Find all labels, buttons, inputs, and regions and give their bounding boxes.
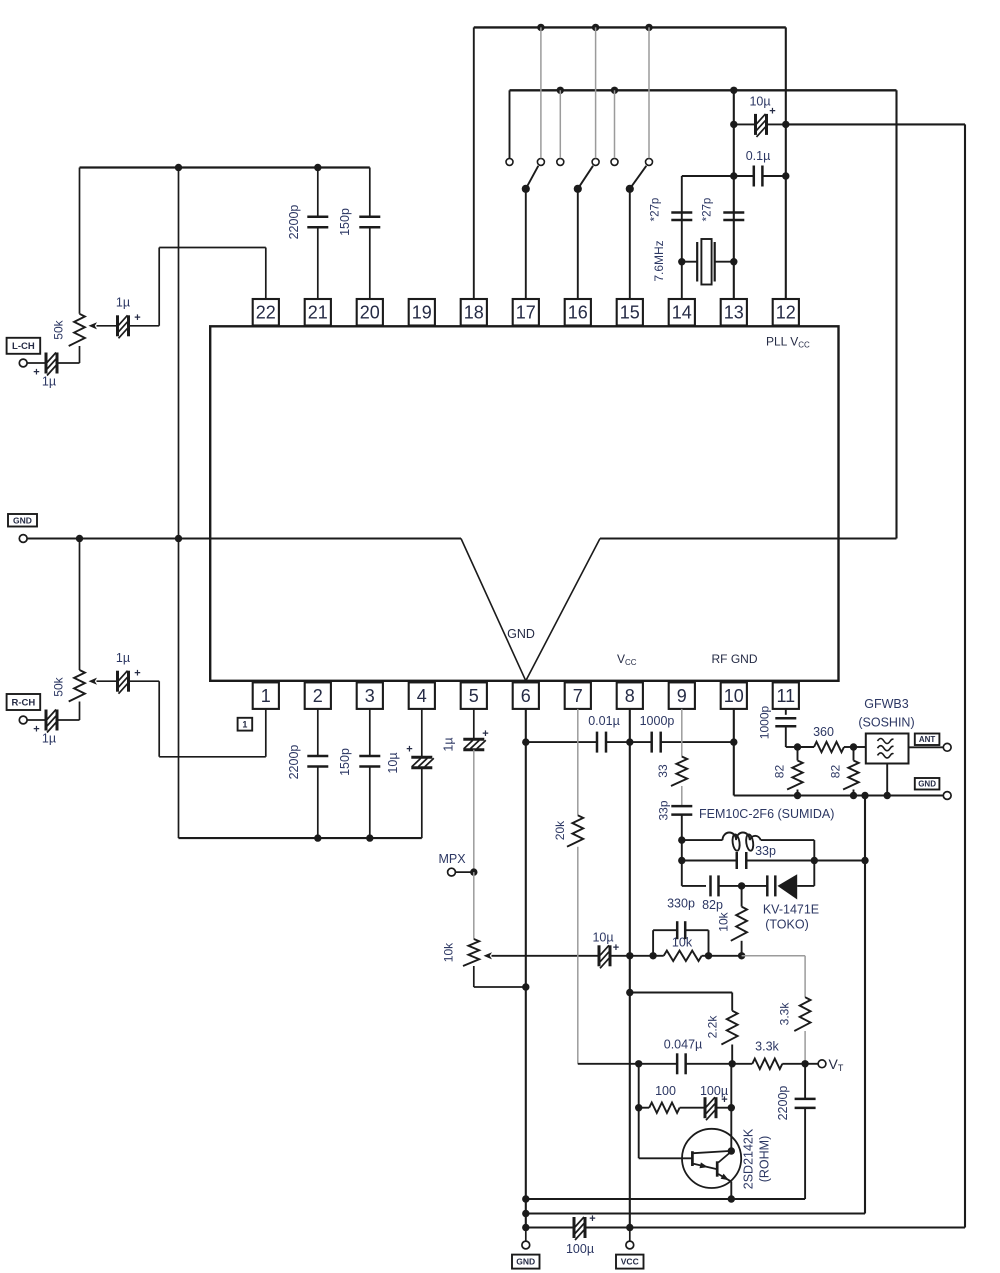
wire tank mid row — [682, 860, 737, 862]
wire 0.1u row left — [682, 175, 734, 177]
wire tank left vertical — [681, 815, 683, 886]
wire tank bottom row — [682, 885, 706, 887]
varactor D1 KV-1471E — [766, 875, 769, 896]
wire cap to pin22 riser — [129, 325, 160, 327]
terminal GND (RF) — [943, 792, 951, 800]
pin 8 box — [617, 682, 643, 709]
node B junction — [850, 743, 857, 750]
svg-text:VCC: VCC — [621, 1257, 639, 1267]
svg-text:82: 82 — [829, 765, 843, 779]
svg-text:150p: 150p — [338, 208, 352, 236]
svg-text:*27p: *27p — [650, 198, 662, 222]
wire left vertical GND x=178.5 — [178, 168, 180, 839]
svg-text:4: 4 — [417, 686, 427, 706]
svg-text:10k: 10k — [717, 911, 731, 931]
capacitor C24 2200p Vt — [804, 1064, 806, 1099]
node junction MPX — [470, 868, 477, 875]
wire 1000p to node A — [785, 726, 787, 747]
svg-text:(SOSHIN): (SOSHIN) — [858, 716, 914, 730]
transistor Q2 emitter stroke with arrow — [718, 1174, 731, 1181]
wire pin14 vertical — [681, 176, 683, 299]
node junction pin10/row — [730, 738, 737, 745]
capacitor C6 1u (R-CH input) — [45, 710, 48, 731]
pin 21 box — [305, 299, 331, 326]
wire filter output — [909, 746, 944, 748]
svg-text:100: 100 — [655, 1084, 676, 1098]
svg-text:1: 1 — [261, 686, 271, 706]
svg-text:(TOKO): (TOKO) — [765, 918, 809, 932]
terminal VCC bottom — [629, 1228, 631, 1242]
svg-text:11: 11 — [776, 686, 795, 706]
wire pin7 top — [577, 709, 579, 815]
node junction Vt — [801, 1060, 808, 1067]
wire varactor to right vertical — [797, 885, 814, 887]
transistor Q1 emitter stroke with arrow — [694, 1164, 717, 1169]
wire GND bus right segment — [600, 537, 897, 539]
op-amp U1 IC body LC72131 22-pin outline — [210, 326, 838, 681]
svg-text:82: 82 — [773, 765, 787, 779]
wire wiper to cap — [97, 325, 118, 327]
svg-text:10k: 10k — [672, 936, 693, 950]
wire GND bus left — [27, 537, 461, 539]
wire to pin10 — [661, 741, 734, 743]
svg-text:KV-1471E: KV-1471E — [763, 903, 819, 917]
pin 6 box — [513, 682, 539, 709]
pin 13 box — [721, 299, 747, 326]
terminal GND bottom — [525, 1228, 527, 1242]
wire — [716, 1107, 731, 1109]
wire pin18 riser — [473, 27, 475, 299]
svg-text:1: 1 — [242, 719, 247, 729]
capacitor C5 1u (R wiper) — [116, 671, 119, 692]
svg-text:20k: 20k — [553, 820, 567, 840]
svg-text:1µ: 1µ — [42, 375, 56, 389]
IC GND V-notch — [461, 539, 600, 681]
wire pin5 cap to MPX — [473, 750, 475, 872]
svg-text:150p: 150p — [338, 748, 352, 776]
capacitor C9 10u pin4 — [421, 709, 423, 757]
svg-text:GFWB3: GFWB3 — [864, 697, 908, 711]
wire rail B — [526, 1212, 865, 1214]
svg-text:+: + — [613, 942, 619, 954]
wire collector vertical — [730, 1064, 732, 1151]
svg-text:+: + — [769, 106, 775, 118]
node junction base-net/100 row — [635, 1104, 642, 1111]
capacitor C16 10u wiper — [598, 945, 601, 966]
node junction long-vertical top — [861, 792, 868, 799]
svg-text:*27p: *27p — [702, 198, 714, 222]
node junction GND/pot — [76, 535, 83, 542]
switch S2 throw contacts — [557, 158, 564, 165]
svg-text:+: + — [134, 668, 140, 680]
pin 4 box — [409, 682, 435, 709]
svg-text:5: 5 — [469, 686, 479, 706]
wire pot bottom to pin6 — [473, 966, 475, 987]
node junction filter gnd stub — [884, 792, 891, 799]
node junction 10u right — [782, 121, 789, 128]
svg-text:50k: 50k — [52, 676, 66, 696]
node junction — [645, 24, 652, 31]
pin 20 box — [357, 299, 383, 326]
node junction 330p right — [705, 952, 712, 959]
wire 0.047u row — [578, 1063, 677, 1065]
pin 5 box — [461, 682, 487, 709]
svg-text:16: 16 — [568, 303, 588, 323]
capacitor C4 150p top — [369, 168, 371, 217]
node junction tank mid-left — [678, 857, 685, 864]
terminal R-CH — [7, 694, 41, 710]
pin 1 box — [253, 682, 279, 709]
resistor R10 3.3k horizontal — [732, 1063, 752, 1065]
svg-text:33: 33 — [656, 764, 670, 778]
node junction 0.1u right — [782, 172, 789, 179]
wire 0.01u row — [526, 741, 597, 743]
wire rail C right — [585, 1226, 965, 1228]
wire base lead — [639, 1157, 693, 1159]
resistor R5 82 left — [797, 747, 799, 761]
wiper arrow VR2 — [89, 678, 98, 685]
transistor Q1 base bar — [691, 1151, 694, 1166]
svg-text:10k: 10k — [442, 942, 456, 962]
node junction — [611, 87, 618, 94]
wire MPX to pot — [473, 872, 475, 939]
node junction collector — [728, 1147, 735, 1154]
wire rail A — [526, 1198, 805, 1200]
svg-text:+: + — [589, 1213, 595, 1225]
wire throw risers gray — [559, 90, 561, 158]
svg-text:3: 3 — [365, 686, 375, 706]
pin 1 marker box — [238, 718, 253, 731]
svg-text:1000p: 1000p — [758, 705, 772, 739]
svg-text:+: + — [721, 1094, 727, 1106]
svg-text:21: 21 — [308, 303, 328, 323]
svg-text:10µ: 10µ — [749, 95, 770, 109]
resistor R2 33 — [671, 757, 687, 787]
node junction pin6/rail C — [522, 1224, 529, 1231]
svg-text:0.047µ: 0.047µ — [664, 1038, 702, 1052]
svg-text:10µ: 10µ — [592, 931, 613, 945]
wire pin8 vertical Vcc net — [629, 709, 631, 1228]
capacitor C1 1u (L wiper) — [116, 315, 119, 336]
svg-text:20: 20 — [360, 303, 380, 323]
resistor R11 100 — [639, 1107, 650, 1109]
wire — [606, 741, 630, 743]
node junction bus/2200p — [314, 164, 321, 171]
svg-text:50k: 50k — [52, 319, 66, 339]
node junction pin8/row — [626, 738, 633, 745]
node junction 0.1u left — [730, 172, 737, 179]
svg-text:15: 15 — [620, 303, 640, 323]
wire 2.2k feed row — [630, 992, 732, 994]
switch S3 throw contacts — [611, 158, 618, 165]
wire terminal to cap — [27, 719, 46, 721]
resistor R4 10k horizontal — [653, 955, 664, 957]
svg-text:(ROHM): (ROHM) — [757, 1136, 771, 1183]
svg-text:GND: GND — [507, 627, 535, 641]
pin 19 box — [409, 299, 435, 326]
svg-text:0.1µ: 0.1µ — [746, 149, 771, 163]
svg-text:3.3k: 3.3k — [755, 1040, 779, 1054]
svg-text:13: 13 — [724, 303, 744, 323]
pin 18 box — [461, 299, 487, 326]
terminal L-CH — [7, 338, 41, 354]
wire bus1 top — [474, 26, 786, 28]
wire long vertical 33p to rail B — [864, 796, 866, 1214]
wire throw risers gray — [540, 27, 542, 158]
capacitor C13 33p series — [671, 805, 692, 808]
pin 12 box — [773, 299, 799, 326]
node junction 82a bottom — [794, 792, 801, 799]
svg-text:17: 17 — [516, 303, 536, 323]
svg-text:RF GND: RF GND — [712, 652, 758, 666]
transistor Q2 base bar — [716, 1161, 719, 1176]
wire 10k to wiper row — [741, 941, 743, 956]
node junction 10u left — [730, 121, 737, 128]
capacitor C8 150p bottom — [369, 709, 371, 756]
svg-text:12: 12 — [776, 303, 796, 323]
capacitor C2 1u (L-CH input) — [45, 353, 48, 374]
svg-text:1µ: 1µ — [42, 732, 56, 746]
wire — [719, 885, 742, 887]
node junction pin6/rail A — [522, 1195, 529, 1202]
svg-text:0.01µ: 0.01µ — [588, 714, 620, 728]
node junction bus/left vertical — [175, 164, 182, 171]
wire bus2 corner down to throw contact — [509, 90, 511, 158]
wire pin13 vertical — [733, 90, 735, 299]
node junction pin13 net — [730, 87, 737, 94]
pin 17 box — [513, 299, 539, 326]
pin 3 box — [357, 682, 383, 709]
resistor R8 2.2k — [721, 1011, 737, 1045]
node junction crystal right — [730, 258, 737, 265]
svg-text:9: 9 — [677, 686, 687, 706]
wire cap to pot — [57, 362, 80, 364]
terminal GND left — [8, 514, 37, 527]
capacitor C22 27p right — [723, 211, 744, 214]
capacitor C11 0.01u — [596, 732, 599, 753]
wire — [742, 885, 768, 887]
wire — [681, 786, 683, 806]
wire L-pot top vertical — [79, 168, 81, 314]
svg-text:10µ: 10µ — [386, 752, 400, 773]
svg-text:L-CH: L-CH — [12, 341, 35, 352]
wire — [702, 955, 709, 957]
wire pin6 vertical GND net — [525, 709, 527, 1228]
wire — [746, 860, 814, 862]
switch S2 pole and lever — [578, 166, 593, 189]
wire top-left ground bus y=167.5 — [80, 166, 370, 168]
svg-text:33p: 33p — [755, 844, 776, 858]
wire R-pot top vertical — [79, 539, 81, 671]
switch S1 throw contacts — [506, 158, 513, 165]
wire — [686, 1063, 733, 1065]
svg-text:1000p: 1000p — [640, 714, 675, 728]
node junction base-net/row — [635, 1060, 642, 1067]
node junction pin6/0.01u row — [522, 738, 529, 745]
pin 14 box — [669, 299, 695, 326]
svg-text:+: + — [33, 724, 39, 736]
wire bottom cap bus — [179, 837, 422, 839]
terminal Vt — [805, 1063, 818, 1065]
potentiometer VR1 50k (L-CH) — [69, 314, 85, 346]
potentiometer VR3 10k (MPX) — [463, 939, 479, 966]
resistor R6 360 — [798, 746, 815, 748]
capacitor C20 0.1u — [734, 175, 754, 177]
wiper arrow VR1 — [89, 322, 98, 329]
svg-text:2200p: 2200p — [287, 205, 301, 240]
svg-text:GND: GND — [516, 1257, 535, 1267]
wire cap to pin1 — [129, 680, 160, 682]
wire pin10 vertical — [733, 709, 735, 796]
switch S3 pole and lever — [630, 166, 647, 189]
node junction crystal left — [678, 258, 685, 265]
wiper arrow VR3 — [484, 952, 493, 959]
pin 7 box — [565, 682, 591, 709]
node junction — [592, 24, 599, 31]
potentiometer VR2 50k (R-CH) — [69, 670, 85, 702]
terminal ANT — [943, 743, 951, 751]
svg-text:1µ: 1µ — [442, 737, 456, 751]
wire bus2 — [510, 89, 897, 91]
svg-text:3.3k: 3.3k — [778, 1002, 792, 1026]
wire — [761, 839, 815, 841]
svg-text:82p: 82p — [702, 898, 723, 912]
pin 16 box — [565, 299, 591, 326]
node junction GND/left vertical — [175, 535, 182, 542]
filter FL1 GFWB3 — [854, 746, 866, 748]
wire cap to pot — [57, 719, 80, 721]
wire pin7 bottom — [577, 847, 579, 1064]
svg-text:2: 2 — [313, 686, 323, 706]
capacitor C14 33p tank — [736, 852, 739, 869]
crystal X1 7.6MHz — [682, 261, 697, 263]
capacitor C10 1u pin5 — [473, 709, 475, 739]
svg-text:GND: GND — [13, 515, 32, 525]
svg-text:FEM10C-2F6 (SUMIDA): FEM10C-2F6 (SUMIDA) — [699, 807, 834, 821]
resistor R9 3.3k vertical — [794, 997, 810, 1031]
svg-text:19: 19 — [412, 303, 432, 323]
pin 10 box — [721, 682, 747, 709]
wire — [680, 1107, 705, 1109]
wire MPX — [455, 871, 473, 873]
wire L-pot bottom — [79, 346, 81, 363]
svg-text:+: + — [406, 744, 412, 756]
node junction 10k-vert/row — [738, 952, 745, 959]
wire — [610, 955, 630, 957]
wire terminal to cap — [27, 362, 46, 364]
wire pin12 vertical — [785, 27, 787, 299]
wire base-net vertical — [638, 1064, 640, 1159]
node junction — [537, 24, 544, 31]
node junction tank top-left — [678, 836, 685, 843]
wire pin9 top — [681, 709, 683, 757]
svg-text:7.6MHz: 7.6MHz — [652, 240, 666, 281]
inductor L1 FEM10C-2F6 coil — [723, 833, 761, 841]
node junction pin8/rail C — [626, 1224, 633, 1231]
node junction 82p/10k — [738, 882, 745, 889]
wire emitter to rail A — [730, 1182, 732, 1200]
wire pin11 to 1000p — [785, 709, 787, 715]
svg-text:33p: 33p — [657, 800, 671, 820]
node junction — [557, 87, 564, 94]
wire long vertical 10u row to rail C — [964, 124, 966, 1227]
svg-text:330p: 330p — [667, 897, 695, 911]
pin 15 box — [617, 299, 643, 326]
svg-text:2200p: 2200p — [776, 1086, 790, 1121]
wire long vertical bus2 to GND bus — [895, 90, 897, 538]
svg-text:8: 8 — [625, 686, 635, 706]
node junction pin6/pot — [522, 983, 529, 990]
node junction 2.2k/row — [729, 1060, 736, 1067]
node junction 33p/long vertical — [861, 857, 868, 864]
svg-text:GND: GND — [918, 780, 936, 789]
wire gray to 3.3k — [742, 955, 806, 957]
capacitor C23 0.047u — [676, 1053, 679, 1074]
node junction pin6/rail B — [522, 1210, 529, 1217]
wire — [709, 955, 742, 957]
wire tank top row — [682, 839, 723, 841]
transistor Q1 collector stroke — [694, 1151, 732, 1153]
svg-text:2200p: 2200p — [287, 745, 301, 780]
svg-text:100µ: 100µ — [566, 1242, 594, 1256]
capacitor C21 27p left — [671, 211, 692, 214]
svg-text:360: 360 — [813, 725, 834, 739]
wire 3.3k to Vt node — [804, 1031, 806, 1064]
node junction tank mid-right — [811, 857, 818, 864]
svg-text:22: 22 — [256, 303, 276, 323]
wire mid row to right vertical — [814, 860, 865, 862]
capacitor C15 82p — [709, 875, 712, 896]
node junction — [366, 834, 373, 841]
svg-text:6: 6 — [521, 686, 531, 706]
capacitor C19 10u PLL — [734, 123, 756, 125]
node A junction — [794, 743, 801, 750]
resistor R7 82 right — [853, 747, 855, 761]
pin 9 box — [669, 682, 695, 709]
svg-text:+: + — [33, 367, 39, 379]
pin 11 box — [773, 682, 799, 709]
wire 10u row to right vertical — [786, 123, 965, 125]
pin 2 box — [305, 682, 331, 709]
svg-text:+: + — [482, 728, 488, 740]
svg-text:+: + — [134, 312, 140, 324]
svg-text:7: 7 — [573, 686, 583, 706]
svg-text:14: 14 — [672, 303, 692, 323]
wire throw risers gray — [614, 90, 616, 158]
capacitor C25 100u feedback — [704, 1097, 707, 1118]
svg-text:10: 10 — [724, 686, 744, 706]
wire 2.2k bottom — [731, 1045, 733, 1064]
capacitor C3 2200p top — [317, 168, 319, 217]
wire R-pot bottom — [79, 702, 81, 721]
transistor Q2 collector stroke — [718, 1152, 731, 1163]
resistor R1 20k — [567, 815, 583, 846]
transistor Q1 2SD2142K — [682, 1129, 741, 1188]
capacitor C7 2200p bottom — [317, 709, 319, 756]
wire tank right vertical — [813, 840, 815, 886]
capacitor C17 330p bridge — [652, 930, 654, 956]
svg-text:18: 18 — [464, 303, 484, 323]
node junction pin8/2.2k row — [626, 989, 633, 996]
wire — [630, 741, 652, 743]
wire filter ground stub — [886, 764, 888, 796]
wire wiper to cap — [97, 680, 118, 682]
node junction — [314, 834, 321, 841]
svg-text:MPX: MPX — [438, 852, 466, 866]
svg-text:2.2k: 2.2k — [706, 1015, 720, 1039]
node junction collector net/100u — [728, 1104, 735, 1111]
svg-text:R-CH: R-CH — [12, 697, 36, 708]
